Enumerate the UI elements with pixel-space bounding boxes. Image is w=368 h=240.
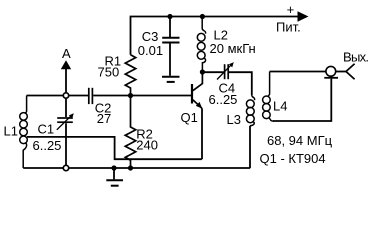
- svg-text:L4: L4: [273, 98, 287, 113]
- svg-text:A: A: [62, 46, 71, 61]
- output fork symbol: [346, 64, 355, 80]
- ground C3: [162, 77, 180, 82]
- node circle antenna: [63, 93, 68, 98]
- ground main: [106, 168, 123, 186]
- wire L3 bottom to ground rail: [249, 126, 251, 168]
- wire base rail left: [27, 95, 88, 97]
- wire base rail right: [93, 95, 191, 97]
- wire bottom ground rail: [23, 167, 250, 169]
- svg-text:6..25: 6..25: [33, 138, 62, 153]
- svg-text:68, 94 МГц: 68, 94 МГц: [267, 133, 333, 148]
- svg-text:750: 750: [98, 64, 120, 79]
- wire emitter down: [201, 108, 203, 159]
- svg-text:20 мкГн: 20 мкГн: [210, 41, 256, 56]
- wire collector node to C4: [202, 71, 223, 73]
- svg-text:0.01: 0.01: [138, 43, 163, 58]
- svg-text:+: +: [287, 2, 295, 17]
- transistor Q1 base bar: [191, 84, 193, 104]
- wire antenna lead: [65, 69, 67, 96]
- svg-text:C1: C1: [38, 122, 55, 137]
- node dot R2 bottom: [128, 165, 133, 170]
- capacitor C3: [138, 17, 180, 76]
- wire connector to output fork: [336, 71, 346, 73]
- node dot base divider: [128, 93, 133, 98]
- svg-text:240: 240: [136, 137, 158, 152]
- antenna arrow: [61, 60, 71, 69]
- svg-text:Q1: Q1: [181, 110, 198, 125]
- svg-text:27: 27: [97, 111, 111, 126]
- capacitor C4 variable: [209, 62, 238, 107]
- svg-text:Вых.: Вых.: [343, 49, 368, 64]
- power arrow: [298, 11, 309, 22]
- svg-text:C3: C3: [142, 29, 159, 44]
- resistor R1: [125, 55, 135, 96]
- inductor L1: [20, 96, 28, 169]
- svg-text:Пит.: Пит.: [276, 20, 301, 35]
- node dot C3 top: [167, 14, 172, 19]
- svg-text:L3: L3: [227, 112, 241, 127]
- output connector circle: [326, 66, 336, 76]
- wire C4 to L3: [229, 72, 252, 95]
- node dot ground: [111, 165, 116, 170]
- transistor Q1 collector: [193, 74, 203, 91]
- transistor Q1 emitter arrowhead: [196, 102, 203, 109]
- inductor L4: [263, 72, 274, 122]
- capacitor C2: [89, 88, 112, 126]
- inductor L2: [197, 17, 205, 71]
- wire L4 top to connector: [270, 71, 326, 73]
- inductor L3: [246, 95, 254, 126]
- capacitor C1 variable: [33, 98, 74, 166]
- node dot L2 top: [200, 14, 205, 19]
- connector shield tick: [324, 77, 338, 79]
- node circle C1 bottom: [63, 165, 68, 170]
- transistor Q1 emitter: [193, 100, 202, 109]
- svg-text:L1: L1: [4, 124, 18, 139]
- svg-text:6..25: 6..25: [209, 92, 238, 107]
- wire L4 bottom to connector shield: [273, 79, 331, 121]
- resistor R2: [125, 96, 135, 169]
- svg-text:Q1 - КТ904: Q1 - КТ904: [260, 151, 326, 166]
- wire L1 tap to emitter: [27, 137, 202, 159]
- node dot collector: [200, 69, 205, 74]
- wire +V top rail: [131, 17, 298, 55]
